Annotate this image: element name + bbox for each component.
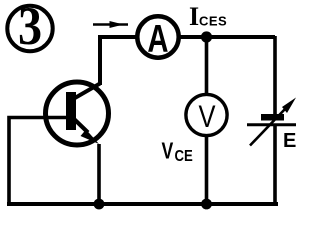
wire: voltmeter lower lead [205,134,209,204]
voltmeter V [186,94,227,135]
wire: right side lower (battery bottom plate to bottom rail) [273,125,277,205]
svg-text:CE: CE [175,148,194,165]
ammeter A [137,16,178,61]
svg-text:V: V [198,100,215,135]
svg-text:CES: CES [199,14,227,29]
label V CE [162,138,194,165]
current direction arrow [93,21,128,28]
wire: right side upper (to battery top plate) [273,36,277,116]
wire: left side + base loop [9,118,67,205]
svg-text:3: 3 [18,0,42,57]
wire: top rail (collector corner to top-right corner) [100,37,275,85]
node dot top (collector node) [201,31,212,42]
wire: voltmeter upper lead [205,37,209,96]
node dot bottom right (voltmeter node) [201,199,212,210]
svg-text:I: I [189,2,199,31]
svg-text:V: V [162,138,174,164]
svg-text:A: A [147,18,168,61]
wire: bottom rail [7,202,278,206]
node dot bottom left (emitter node) [94,199,105,210]
wire: emitter vertical [97,144,101,204]
label I CES [189,2,227,31]
svg-text:E: E [283,130,296,152]
transistor Q1 [46,82,109,145]
circled number 3 [7,0,52,57]
battery E (variable source) [247,98,296,146]
